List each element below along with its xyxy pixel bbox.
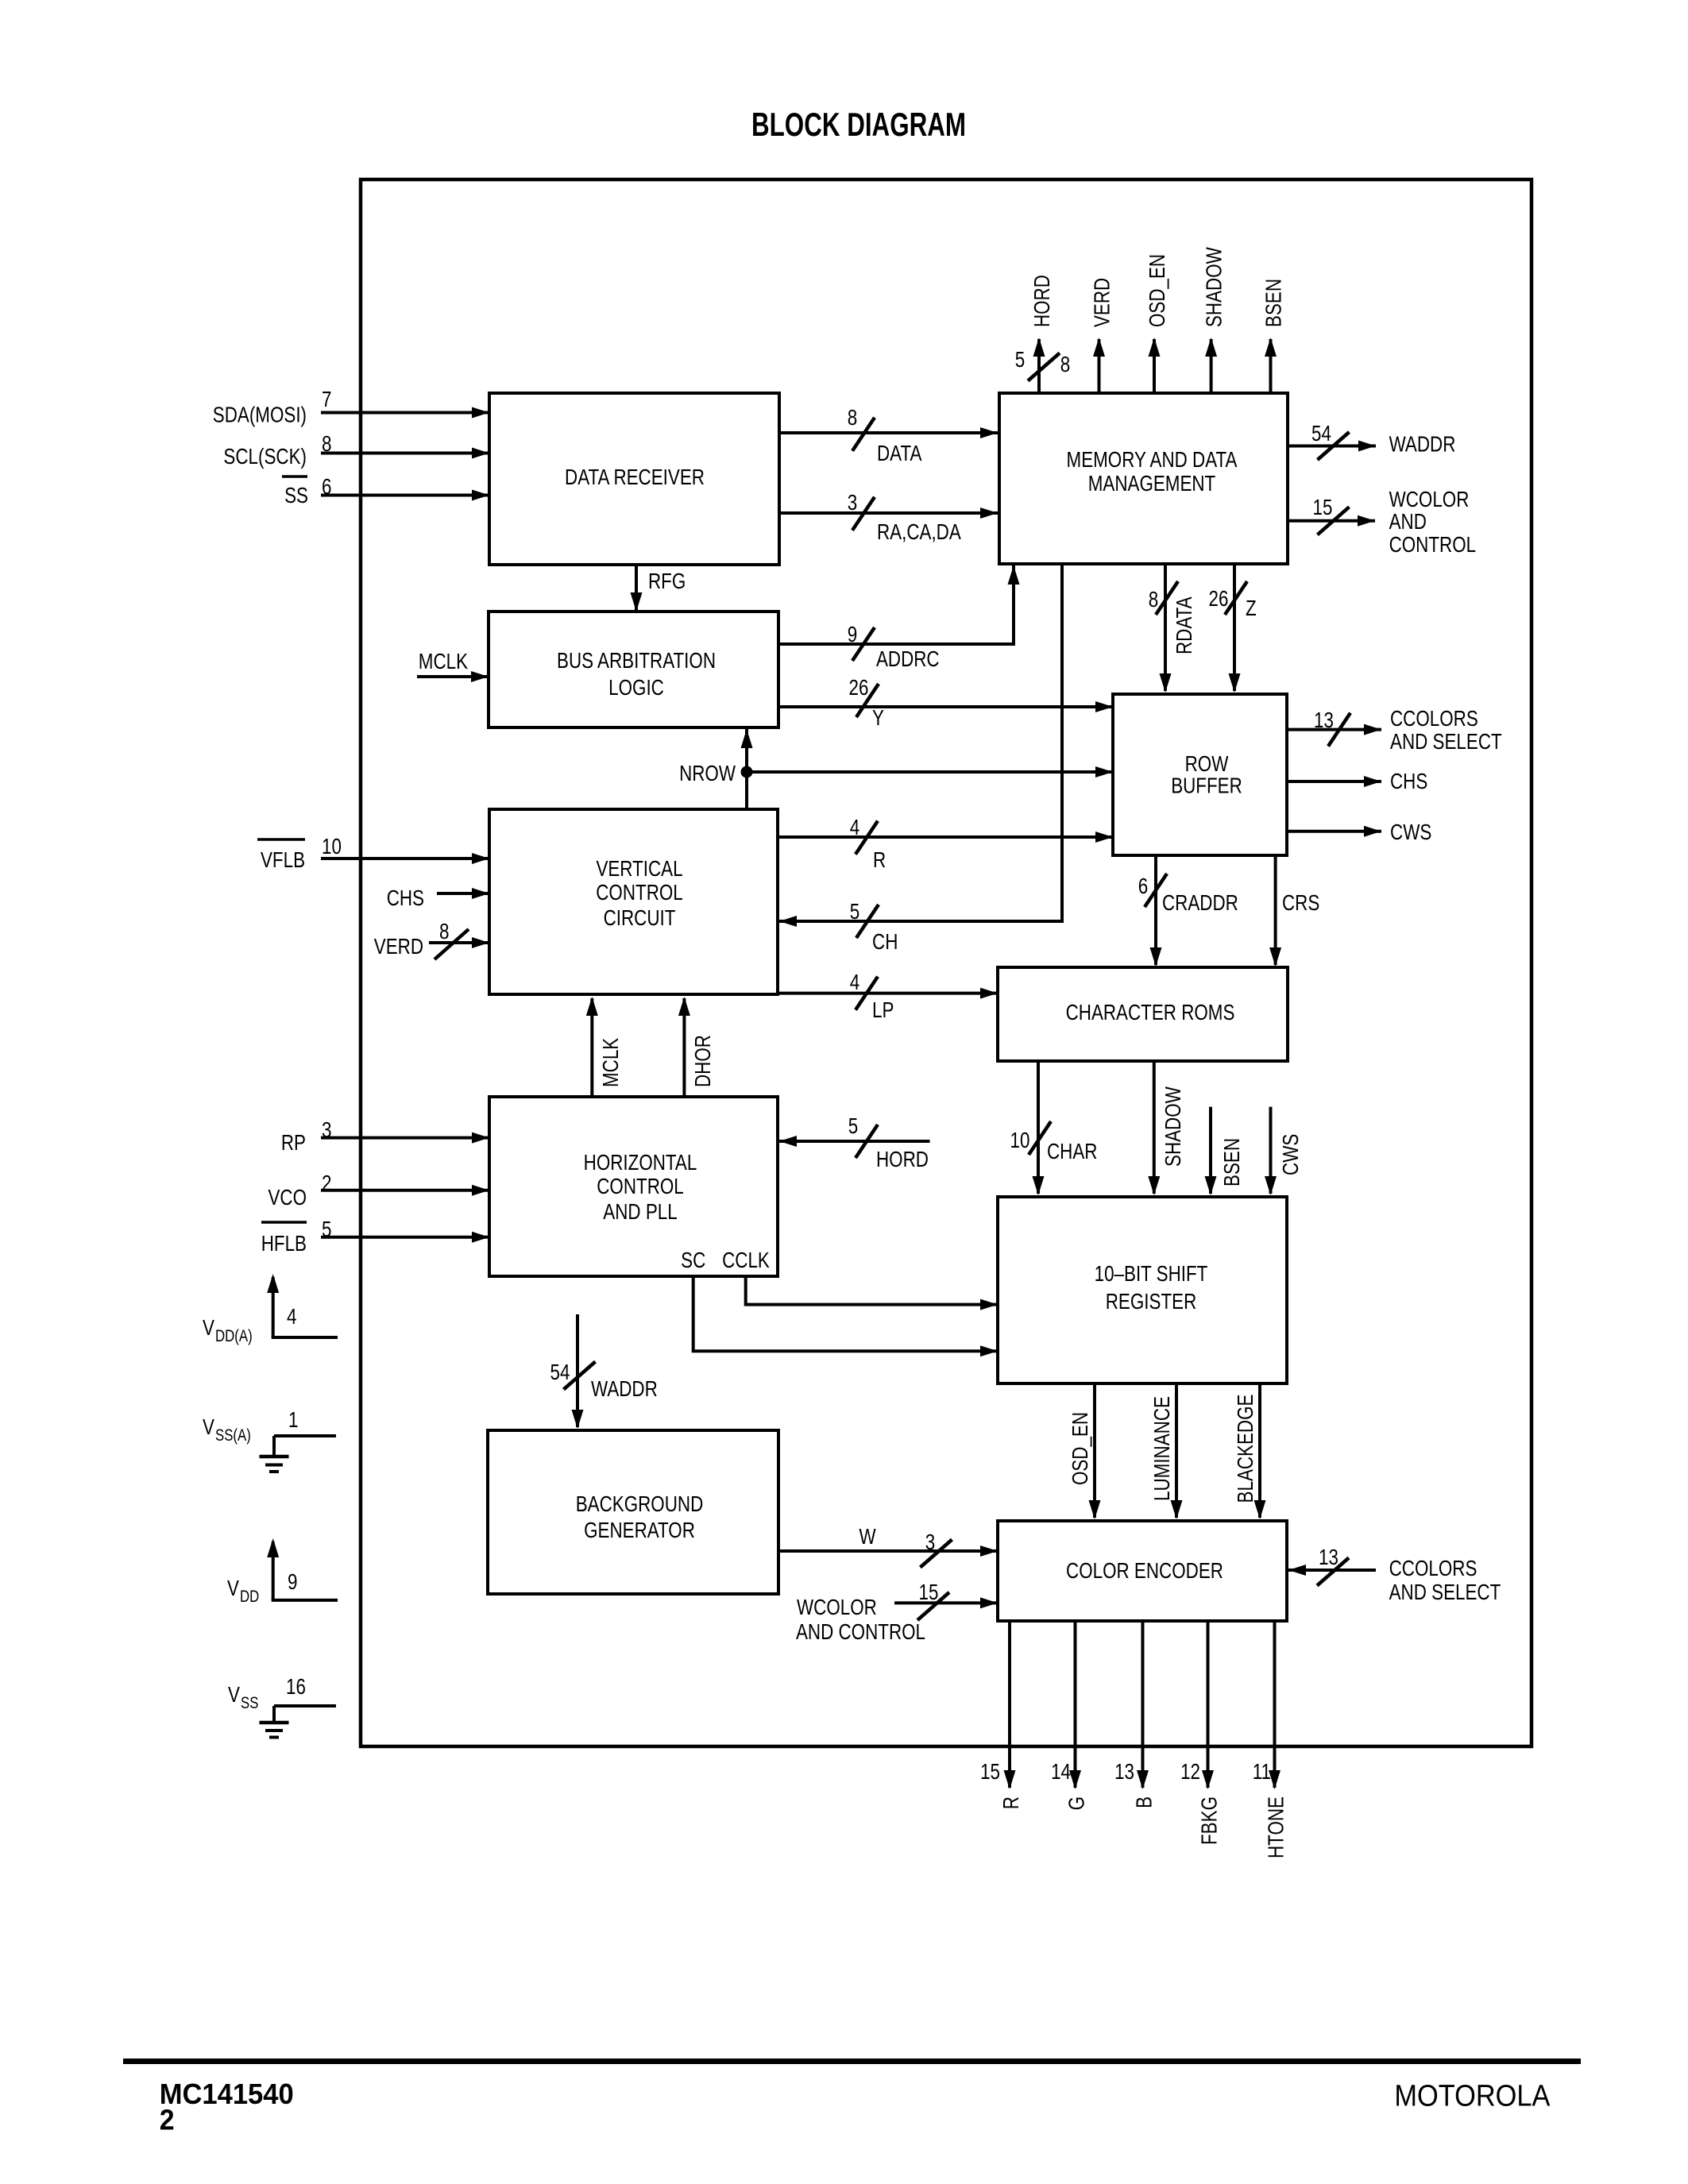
svg-text:13: 13 [1114,1759,1134,1784]
svg-text:G: G [1064,1796,1089,1810]
svg-text:3: 3 [925,1530,936,1554]
svg-text:MCLK: MCLK [598,1038,623,1087]
svg-text:RDATA: RDATA [1172,596,1196,654]
svg-text:CWS: CWS [1278,1134,1303,1175]
svg-text:WCOLOR: WCOLOR [797,1595,877,1619]
svg-text:DD: DD [240,1588,259,1606]
svg-text:54: 54 [550,1360,570,1384]
svg-text:OSD_EN: OSD_EN [1145,254,1169,327]
svg-text:LOGIC: LOGIC [608,675,664,700]
svg-text:15: 15 [1313,495,1333,519]
svg-text:BLOCK DIAGRAM: BLOCK DIAGRAM [751,106,966,143]
svg-text:SHADOW: SHADOW [1161,1086,1185,1167]
svg-text:CHS: CHS [1390,769,1427,793]
svg-text:V: V [203,1414,214,1439]
svg-text:HORD: HORD [1029,275,1054,327]
svg-text:CHARACTER ROMS: CHARACTER ROMS [1066,1000,1235,1024]
svg-text:SC: SC [681,1248,705,1272]
svg-text:16: 16 [286,1674,306,1699]
svg-text:Z: Z [1246,596,1257,620]
svg-text:4: 4 [850,815,860,839]
svg-text:1: 1 [288,1407,299,1432]
svg-text:4: 4 [850,970,860,994]
svg-text:2: 2 [160,2104,175,2136]
svg-text:RP: RP [281,1130,306,1155]
svg-text:26: 26 [1209,586,1229,611]
svg-text:AND SELECT: AND SELECT [1389,1580,1501,1604]
svg-text:BSEN: BSEN [1219,1138,1244,1187]
svg-text:BUFFER: BUFFER [1171,774,1242,798]
svg-text:2: 2 [322,1171,332,1195]
svg-text:CCLK: CCLK [722,1248,770,1272]
svg-text:7: 7 [322,387,332,411]
svg-text:CIRCUIT: CIRCUIT [604,905,676,930]
svg-text:10: 10 [322,834,342,859]
svg-text:CONTROL: CONTROL [1389,532,1477,557]
svg-text:HTONE: HTONE [1264,1796,1288,1858]
svg-text:CCOLORS: CCOLORS [1389,1556,1477,1580]
svg-text:V: V [203,1315,214,1340]
svg-text:BACKGROUND: BACKGROUND [576,1491,704,1516]
svg-text:SS: SS [284,483,308,507]
svg-text:8: 8 [439,919,450,943]
svg-text:CRADDR: CRADDR [1162,890,1238,915]
svg-text:54: 54 [1311,421,1331,446]
svg-text:DHOR: DHOR [690,1035,715,1087]
svg-text:LUMINANCE: LUMINANCE [1149,1396,1174,1501]
svg-text:5: 5 [848,1113,859,1138]
svg-text:CRS: CRS [1282,890,1319,915]
svg-text:BSEN: BSEN [1261,279,1286,327]
svg-text:VERTICAL: VERTICAL [596,856,682,881]
svg-text:ROW: ROW [1185,751,1229,776]
svg-text:FBKG: FBKG [1197,1796,1222,1845]
svg-text:14: 14 [1051,1759,1071,1784]
svg-text:WADDR: WADDR [1389,432,1456,457]
svg-text:SS(A): SS(A) [215,1426,251,1445]
svg-text:9: 9 [288,1569,298,1594]
svg-text:MCLK: MCLK [419,649,468,673]
svg-text:CHS: CHS [387,886,424,910]
svg-text:8: 8 [322,431,332,456]
svg-text:12: 12 [1180,1759,1200,1784]
svg-text:MANAGEMENT: MANAGEMENT [1088,471,1216,496]
svg-text:SDA(MOSI): SDA(MOSI) [213,403,307,427]
svg-text:CONTROL: CONTROL [596,880,683,905]
svg-text:11: 11 [1253,1759,1271,1784]
svg-text:SHADOW: SHADOW [1202,247,1226,327]
svg-text:3: 3 [848,490,858,515]
svg-text:4: 4 [287,1304,297,1329]
svg-text:CH: CH [872,929,898,954]
svg-text:MOTOROLA: MOTOROLA [1394,2080,1551,2113]
svg-text:R: R [999,1796,1023,1809]
svg-text:3: 3 [322,1117,332,1142]
svg-text:10: 10 [1010,1128,1030,1152]
svg-text:BUS ARBITRATION: BUS ARBITRATION [557,648,716,673]
svg-text:10–BIT SHIFT: 10–BIT SHIFT [1095,1261,1208,1286]
svg-text:REGISTER: REGISTER [1106,1289,1197,1314]
svg-text:R: R [873,847,886,872]
svg-text:VERD: VERD [374,934,423,959]
svg-text:CONTROL: CONTROL [597,1174,684,1198]
svg-text:6: 6 [322,474,332,499]
svg-text:CCOLORS: CCOLORS [1390,706,1478,731]
svg-text:V: V [227,1576,239,1600]
svg-text:5: 5 [1015,347,1026,372]
svg-text:HORD: HORD [876,1147,929,1171]
svg-text:15: 15 [980,1759,1000,1784]
svg-text:VERD: VERD [1090,278,1114,327]
svg-text:DATA RECEIVER: DATA RECEIVER [565,465,705,489]
svg-text:8: 8 [848,405,858,430]
svg-text:CWS: CWS [1390,820,1431,844]
svg-text:6: 6 [1138,874,1149,898]
svg-text:SS: SS [241,1694,258,1712]
svg-text:RFG: RFG [648,569,686,593]
svg-text:B: B [1132,1796,1157,1808]
svg-text:Y: Y [872,705,884,730]
svg-text:BLACKEDGE: BLACKEDGE [1233,1395,1257,1503]
svg-text:DD(A): DD(A) [215,1327,253,1345]
svg-text:AND: AND [1389,509,1427,534]
svg-text:5: 5 [322,1217,332,1241]
svg-text:13: 13 [1319,1545,1338,1569]
svg-text:HFLB: HFLB [261,1231,307,1256]
svg-text:SCL(SCK): SCL(SCK) [223,444,307,469]
svg-text:WCOLOR: WCOLOR [1389,487,1470,511]
svg-text:9: 9 [848,622,858,646]
svg-text:8: 8 [1149,587,1159,612]
svg-text:MEMORY AND DATA: MEMORY AND DATA [1067,447,1238,472]
svg-text:8: 8 [1060,352,1071,376]
svg-text:RA,CA,DA: RA,CA,DA [877,519,961,544]
svg-text:VCO: VCO [268,1185,307,1210]
svg-text:V: V [228,1682,240,1707]
svg-text:AND CONTROL: AND CONTROL [796,1619,925,1644]
svg-text:HORIZONTAL: HORIZONTAL [584,1150,697,1175]
svg-text:5: 5 [850,899,860,924]
svg-text:15: 15 [919,1580,939,1604]
svg-text:ADDRC: ADDRC [876,646,940,671]
svg-text:OSD_EN: OSD_EN [1068,1412,1092,1485]
svg-text:LP: LP [872,997,894,1022]
svg-text:WADDR: WADDR [591,1376,658,1401]
svg-text:AND PLL: AND PLL [603,1199,677,1224]
svg-text:COLOR ENCODER: COLOR ENCODER [1066,1558,1223,1583]
svg-text:GENERATOR: GENERATOR [584,1518,695,1542]
svg-text:CHAR: CHAR [1047,1139,1098,1163]
svg-text:W: W [859,1524,876,1549]
svg-text:VFLB: VFLB [261,847,305,872]
svg-text:NROW: NROW [679,761,736,785]
svg-text:AND SELECT: AND SELECT [1390,729,1502,754]
svg-text:MC141540: MC141540 [160,2078,294,2110]
svg-text:DATA: DATA [877,441,922,465]
svg-text:13: 13 [1314,708,1334,732]
svg-text:26: 26 [849,675,869,700]
